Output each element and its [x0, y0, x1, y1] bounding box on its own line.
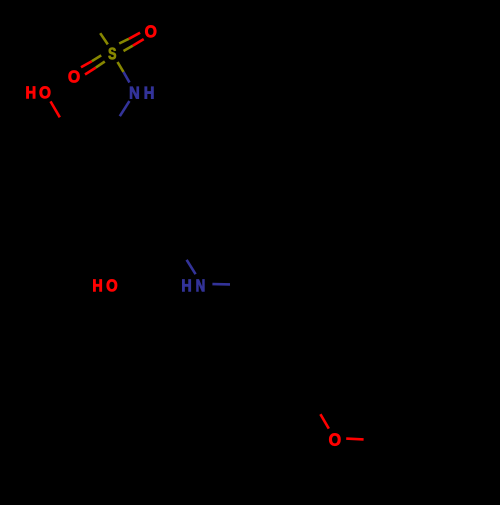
bond N-CH2 from sulfonamide NH (nitrogen half) [120, 101, 130, 116]
double bond S=O top-right line2 sulfur half [124, 46, 133, 51]
double bond S=O top-right line2 oxygen half [133, 39, 144, 46]
atom label H of amine HN [182, 279, 190, 291]
double bond S=O top-right line1 sulfur half [119, 39, 129, 44]
atom label O of hydroxyl HO (middle) [107, 279, 117, 291]
bond S-N nitrogen half [124, 72, 130, 83]
atom label S (sulfonyl sulfur) [108, 48, 115, 60]
bond N-CH2 up from amine HN (nitrogen half) [187, 260, 196, 274]
bond O-C right from ether O (oxygen half) [346, 437, 363, 440]
atom label N of sulfonamide NH [130, 87, 139, 99]
double bond S=O bottom-left line2 oxygen half [85, 68, 96, 75]
bond S-N sulfur half [118, 62, 124, 72]
atom label O (sulfonyl O, bottom-left) [69, 70, 80, 82]
atom label O (sulfonyl O, top-right) [145, 25, 156, 37]
bond N-CH2 right from amine HN (nitrogen half) [212, 283, 230, 286]
double bond S=O bottom-left line1 oxygen half [81, 61, 92, 67]
atom label N of amine HN [197, 279, 205, 291]
atom label O (aryl ether oxygen) [329, 433, 340, 445]
bond O-C from phenol HO (oxygen half) [51, 101, 60, 117]
double bond S=O bottom-left line1 sulfur half [92, 55, 101, 61]
atom label H of sulfonamide NH [145, 87, 154, 99]
double bond S=O top-right line1 oxygen half [129, 33, 140, 39]
atom label H of phenol HO (top-left) [26, 86, 35, 98]
bond O-CH2 up-left from ether O (oxygen half) [320, 414, 328, 428]
bond S-CH3 methyl (sulfur half) [100, 33, 108, 44]
atom label H of hydroxyl HO (middle) [93, 279, 101, 291]
double bond S=O bottom-left line2 sulfur half [96, 62, 105, 68]
atom label O of phenol HO (top-left) [40, 86, 51, 98]
